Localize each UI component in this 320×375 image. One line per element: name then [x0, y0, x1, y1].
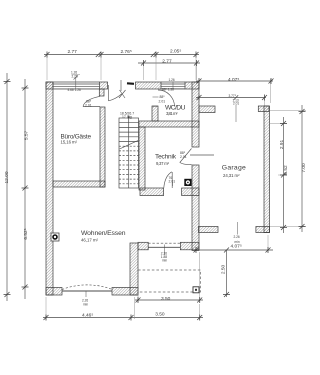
svg-text:6.52⁵: 6.52⁵ [23, 228, 29, 239]
svg-text:15,16 m²: 15,16 m² [61, 139, 78, 144]
svg-text:9,37 m²: 9,37 m² [156, 161, 170, 166]
svg-text:2.50: 2.50 [220, 265, 226, 275]
svg-text:4.07⁵: 4.07⁵ [228, 77, 239, 83]
svg-text:2.01: 2.01 [169, 180, 176, 184]
svg-text:Wohnen/Essen: Wohnen/Essen [81, 230, 126, 237]
svg-text:2.77: 2.77 [162, 59, 172, 65]
svg-text:2.01: 2.01 [159, 100, 166, 104]
svg-text:2.76⁵: 2.76⁵ [121, 49, 132, 55]
svg-text:4.46⁵: 4.46⁵ [82, 313, 93, 319]
svg-text:2.26: 2.26 [234, 235, 240, 239]
svg-text:min: min [162, 259, 167, 263]
svg-text:min: min [83, 303, 88, 307]
svg-text:3.50: 3.50 [155, 312, 165, 318]
svg-text:17 Stg: 17 Stg [122, 115, 132, 119]
svg-text:3.50: 3.50 [161, 296, 171, 302]
svg-text:Garage: Garage [222, 165, 246, 172]
svg-text:2.01: 2.01 [180, 155, 187, 159]
svg-text:2.91: 2.91 [279, 140, 285, 150]
svg-text:Technik: Technik [155, 154, 177, 161]
svg-text:7.00: 7.00 [301, 163, 307, 173]
svg-text:2.05⁵: 2.05⁵ [170, 49, 181, 55]
svg-text:6.52: 6.52 [283, 165, 289, 175]
svg-text:5.57: 5.57 [24, 131, 30, 141]
svg-text:46,17 m²: 46,17 m² [81, 237, 99, 242]
svg-text:88⁵ 1.38: 88⁵ 1.38 [162, 88, 174, 92]
svg-text:88⁵: 88⁵ [160, 95, 166, 99]
svg-text:4.66 1.26: 4.66 1.26 [68, 88, 82, 92]
svg-text:12.00: 12.00 [4, 171, 10, 183]
svg-text:4.07⁵: 4.07⁵ [231, 243, 242, 249]
svg-text:1.26: 1.26 [169, 78, 175, 82]
svg-text:2.01: 2.01 [85, 104, 92, 108]
svg-text:24,31 m²: 24,31 m² [223, 173, 240, 178]
svg-text:2.77: 2.77 [68, 49, 78, 55]
svg-text:3,81 m²: 3,81 m² [166, 111, 178, 116]
